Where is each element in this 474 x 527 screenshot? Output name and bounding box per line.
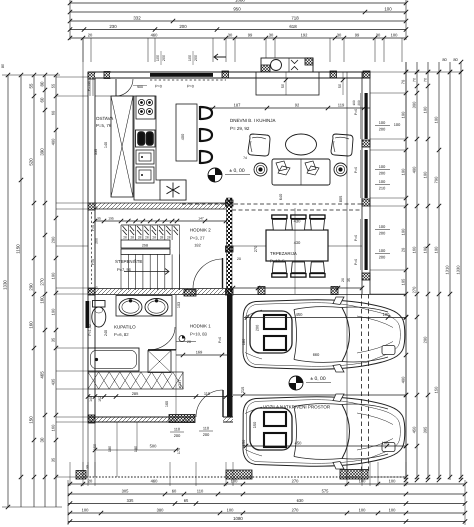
kitchen double sink black basins: [136, 130, 156, 147]
island stool 2: [200, 128, 212, 142]
svg-text:395: 395: [423, 426, 428, 433]
armchair left: [248, 134, 270, 156]
door stub hatch at bath wall: [184, 290, 196, 297]
witness lines bottom: [69, 462, 71, 486]
bottom door swing arc: [196, 390, 223, 417]
svg-text:20: 20: [341, 278, 345, 282]
stair direction arrow: [124, 269, 169, 275]
svg-text:270: 270: [292, 508, 300, 513]
armchair right: [331, 134, 353, 156]
left wall pier at bottom wall: [88, 415, 95, 423]
svg-text:110: 110: [197, 489, 204, 494]
coffee table oval: [286, 134, 317, 155]
svg-text:P=0: P=0: [91, 225, 95, 231]
left wall glass doors at stairs (P=0): [91, 212, 93, 284]
svg-text:P=5, 76: P=5, 76: [96, 123, 112, 128]
svg-text:STEPENIŠTE: STEPENIŠTE: [115, 259, 142, 264]
svg-text:450: 450: [295, 441, 303, 446]
partition pier marks: [226, 200, 234, 206]
svg-text:200: 200: [162, 55, 166, 61]
svg-text:335: 335: [94, 149, 98, 155]
svg-text:200: 200: [203, 432, 210, 437]
chimney vent arrows: [291, 60, 298, 70]
right window 3 black glazing: [365, 219, 368, 270]
svg-text:380: 380: [157, 508, 165, 513]
dim line right 2: [416, 62, 418, 480]
svg-text:150: 150: [434, 386, 439, 393]
svg-text:618: 618: [289, 24, 297, 29]
svg-text:950: 950: [233, 7, 241, 12]
svg-text:180: 180: [134, 446, 138, 452]
interior wall hodnik horizontal: [95, 203, 227, 209]
svg-text:100: 100: [379, 179, 386, 184]
svg-text:200: 200: [357, 100, 361, 106]
kitchen island: [176, 104, 197, 161]
svg-text:35: 35: [97, 217, 101, 221]
svg-text:460: 460: [151, 33, 159, 38]
svg-text:215: 215: [240, 387, 245, 394]
island stool 1: [200, 106, 212, 120]
stair dim line with 28 treads: [95, 220, 226, 222]
svg-text:100: 100: [394, 122, 401, 127]
svg-text:290: 290: [29, 283, 34, 291]
sofa pillows left: [276, 161, 290, 175]
svg-text:100: 100: [379, 248, 386, 253]
svg-text:460: 460: [151, 479, 159, 484]
outer wall right faces: [361, 72, 363, 294]
svg-text:169: 169: [196, 350, 203, 355]
svg-text:200: 200: [379, 255, 386, 260]
left wall pier at hodnik wall: [88, 203, 95, 210]
svg-text:± 0, 00: ± 0, 00: [229, 168, 244, 174]
dim line left 5: [55, 75, 57, 507]
car 2: [243, 394, 405, 469]
svg-text:20: 20: [88, 479, 93, 484]
dim block left bottom end bar: [2, 506, 62, 508]
stove with 4 burners: [136, 96, 155, 119]
svg-text:100: 100: [434, 246, 439, 253]
svg-text:P=7, 56: P=7, 56: [117, 267, 132, 272]
svg-text:P=0: P=0: [354, 259, 358, 265]
bottom pier middle: [226, 470, 252, 479]
svg-text:± 0, 00: ± 0, 00: [310, 376, 325, 382]
dim line bottom 3: [68, 503, 465, 505]
svg-text:400: 400: [401, 376, 406, 383]
svg-text:305: 305: [122, 489, 130, 494]
outer wall top face lines: [88, 71, 370, 73]
carport right edge: [405, 62, 407, 480]
svg-text:92: 92: [295, 103, 300, 108]
bath sink 1: [119, 299, 142, 316]
hodnik2 door leaf: [222, 258, 224, 288]
svg-text:100: 100: [384, 7, 392, 12]
hodnik1 level mark: [179, 336, 185, 342]
stair upper flight treads with hatch: [120, 225, 122, 240]
dim line top 3 (332/718): [70, 20, 406, 22]
svg-text:140: 140: [89, 396, 93, 402]
bottom door leaf: [222, 390, 224, 417]
svg-text:P=0: P=0: [354, 235, 358, 241]
interior wall east black (hodnik1/garage): [227, 295, 233, 417]
chimney corner hatch left: [261, 65, 270, 72]
svg-text:400: 400: [412, 166, 417, 173]
bath vanity counter: [116, 296, 172, 317]
svg-text:100: 100: [389, 479, 397, 484]
sofa pillows right: [305, 161, 319, 175]
svg-text:200: 200: [379, 231, 386, 236]
svg-text:30: 30: [337, 33, 342, 38]
svg-text:630: 630: [297, 498, 305, 503]
stair handrail box 2: [121, 249, 170, 254]
witness lines right wall to chains: [370, 71, 406, 73]
svg-text:DNEVNI B. I KUHINJA: DNEVNI B. I KUHINJA: [230, 118, 276, 123]
entrance arrow: [214, 54, 226, 60]
svg-text:30: 30: [86, 465, 90, 469]
dim block top left end bar: [69, 0, 71, 40]
svg-text:1080: 1080: [235, 0, 245, 3]
bathtub: [88, 348, 139, 371]
dim line right 1: [405, 62, 407, 480]
svg-text:175: 175: [177, 448, 181, 454]
bottom terrace dotted edge: [83, 476, 406, 478]
svg-text:332: 332: [133, 16, 141, 21]
toilet: [92, 307, 106, 327]
car 1: [243, 297, 405, 372]
svg-text:500: 500: [150, 444, 158, 449]
svg-text:100: 100: [379, 164, 386, 169]
svg-text:435: 435: [51, 378, 56, 385]
bottom door opening: [195, 416, 223, 423]
svg-text:80: 80: [1, 64, 5, 68]
svg-text:230: 230: [109, 24, 117, 29]
svg-text:270: 270: [292, 479, 300, 484]
right wall pier 2: [362, 140, 370, 147]
svg-text:465: 465: [40, 371, 45, 379]
right wall inner sill lines: [360, 93, 362, 139]
dim line bottom 1: [68, 483, 465, 485]
svg-text:P=6, 82: P=6, 82: [114, 332, 129, 337]
svg-text:ø217: ø217: [178, 380, 182, 389]
side table ring right: [334, 163, 347, 176]
svg-text:50: 50: [338, 84, 342, 88]
svg-text:103: 103: [177, 302, 181, 308]
left wall pier top: [88, 72, 95, 79]
svg-text:P=0: P=0: [354, 109, 358, 115]
dim block bottom right end bar: [464, 480, 466, 525]
svg-text:450: 450: [412, 426, 417, 433]
hodnik2 door swing arc: [193, 259, 223, 289]
svg-text:200: 200: [179, 24, 187, 29]
svg-text:119: 119: [338, 103, 345, 108]
house bottom wall: [88, 417, 233, 422]
svg-text:P=0: P=0: [354, 167, 358, 173]
terrace witness verticals: [116, 422, 118, 477]
svg-text:160: 160: [412, 246, 417, 253]
garage mid dim line: [233, 394, 406, 396]
svg-text:28: 28: [123, 236, 127, 240]
svg-text:100: 100: [379, 120, 386, 125]
left wall window upper (P=140): [89, 79, 91, 96]
bottom pier right: [340, 470, 368, 480]
svg-text:35: 35: [51, 337, 56, 342]
chimney circle flue: [271, 60, 282, 71]
dim line bottom 5 (1080): [68, 521, 465, 523]
svg-text:1330: 1330: [3, 280, 8, 290]
svg-text:150: 150: [252, 421, 257, 428]
garage top edge line: [233, 294, 406, 296]
elevation symbol living: [208, 168, 222, 182]
svg-text:100: 100: [352, 100, 356, 106]
svg-text:1310: 1310: [445, 265, 450, 275]
svg-text:KUPATILO: KUPATILO: [114, 325, 136, 330]
svg-text:P=0: P=0: [187, 85, 194, 89]
svg-text:30: 30: [40, 437, 45, 442]
chimney lower footprint: [256, 72, 319, 95]
island stool 3: [200, 150, 212, 164]
dining chair bottom 1: [272, 262, 287, 277]
svg-text:182: 182: [194, 243, 201, 248]
svg-text:520: 520: [29, 158, 34, 166]
garage top dim line: [233, 287, 362, 289]
dim line right 3: [427, 62, 429, 480]
svg-text:200: 200: [194, 55, 198, 61]
svg-text:70: 70: [424, 78, 428, 82]
svg-text:200: 200: [379, 171, 386, 176]
svg-text:100: 100: [227, 508, 235, 513]
svg-text:100: 100: [359, 508, 367, 513]
svg-text:805: 805: [338, 196, 343, 203]
svg-text:400: 400: [51, 138, 56, 145]
entry door opening: [110, 73, 137, 78]
svg-text:450: 450: [296, 312, 304, 317]
svg-text:640: 640: [278, 193, 283, 200]
svg-text:55: 55: [29, 83, 34, 88]
dining dim line across room: [233, 245, 362, 247]
svg-text:100: 100: [391, 33, 399, 38]
svg-text:1330: 1330: [456, 265, 461, 275]
svg-text:100: 100: [51, 272, 56, 279]
svg-text:80: 80: [40, 81, 45, 86]
dim line left 2 (1150): [20, 75, 22, 507]
terrace dim 500: [95, 449, 178, 451]
svg-text:1080: 1080: [233, 516, 243, 521]
svg-text:270: 270: [412, 286, 417, 293]
bottom door threshold hatch: [169, 415, 195, 423]
dim line right 4: [438, 62, 440, 480]
svg-text:210: 210: [379, 186, 386, 191]
chimney corner hatch right: [305, 58, 313, 65]
svg-text:99: 99: [355, 33, 360, 38]
svg-text:660: 660: [313, 352, 320, 357]
car 1 dim line 450/100: [244, 317, 406, 319]
overhead gallery dashed lines through living: [182, 203, 362, 205]
svg-text:P=10, 83: P=10, 83: [190, 332, 208, 337]
svg-text:99: 99: [248, 33, 253, 38]
garage right wall line upper part: [346, 72, 348, 294]
dining chair top 2: [291, 215, 306, 230]
side table ring left: [254, 163, 267, 176]
svg-text:270: 270: [253, 245, 258, 252]
roof overhang dashed pair over cars: [361, 294, 363, 472]
svg-text:100: 100: [156, 55, 160, 61]
svg-text:105: 105: [401, 278, 406, 285]
garage right wall line through cars: [346, 294, 348, 480]
car 2 dim line 450/100: [243, 445, 406, 447]
svg-text:575: 575: [322, 489, 330, 494]
svg-text:390: 390: [40, 148, 45, 156]
svg-text:100: 100: [389, 508, 397, 513]
interior wall bath/stairs horizontal: [88, 289, 232, 295]
dining chair bottom 3: [310, 262, 325, 277]
svg-text:180: 180: [241, 338, 246, 345]
dim line top 5 (small segments): [70, 37, 406, 39]
svg-text:50: 50: [281, 84, 285, 88]
interior partition stairs east (checkered): [227, 198, 233, 295]
svg-text:35: 35: [347, 278, 351, 282]
dim line left 1 (1330): [7, 75, 9, 507]
bath floor hatch band: [88, 372, 183, 389]
svg-text:200: 200: [423, 336, 428, 343]
svg-text:180: 180: [108, 446, 112, 452]
svg-text:100: 100: [188, 55, 192, 61]
washing machine X box: [148, 351, 171, 373]
svg-text:150: 150: [29, 416, 34, 424]
svg-text:160: 160: [29, 321, 34, 329]
svg-text:TRPEZARIJA: TRPEZARIJA: [270, 251, 297, 256]
top wall white base: [95, 73, 362, 78]
stair lower flight treads: [120, 254, 122, 290]
kitchen drawer unit 2: [136, 167, 154, 183]
dim line right 6 (1330): [460, 62, 462, 480]
svg-text:335: 335: [127, 498, 135, 503]
entry door swing arc: [116, 79, 133, 96]
svg-text:28: 28: [160, 236, 164, 240]
svg-text:100: 100: [423, 171, 428, 178]
svg-text:35: 35: [51, 457, 56, 462]
right window 1 black glazing: [365, 93, 368, 139]
svg-text:187: 187: [234, 103, 242, 108]
svg-text:192: 192: [301, 33, 309, 38]
witness lines from left wall to dim block: [56, 76, 88, 78]
kitchen drawer unit 1: [136, 150, 154, 164]
svg-text:160: 160: [51, 424, 56, 431]
right wall pier 4: [362, 273, 370, 280]
dim block top right end bar: [405, 0, 407, 40]
dim line 187/92/119 across living: [208, 107, 370, 109]
svg-text:270: 270: [40, 278, 45, 286]
entry door leaf: [115, 79, 117, 96]
svg-text:258: 258: [142, 244, 148, 248]
svg-text:240: 240: [104, 330, 108, 336]
stair handrail box 258: [121, 240, 170, 248]
top wall pier right: [330, 71, 337, 78]
svg-text:430: 430: [294, 219, 302, 224]
top wall pier left of entry door: [104, 72, 110, 79]
svg-text:28: 28: [152, 236, 156, 240]
elevation symbol garage: [289, 376, 303, 390]
dining chair bottom 2: [291, 262, 306, 277]
svg-text:110: 110: [203, 426, 210, 431]
bath door swing arc: [148, 327, 175, 350]
svg-text:200: 200: [255, 324, 260, 331]
svg-text:100: 100: [423, 106, 428, 113]
top-right corner pier: [363, 71, 370, 78]
svg-text:P= 29, 92: P= 29, 92: [230, 126, 250, 131]
svg-text:70: 70: [413, 78, 417, 82]
left wall pier at bath wall: [88, 288, 95, 295]
svg-text:28: 28: [145, 236, 149, 240]
dim line top 1 (1080): [70, 2, 406, 4]
svg-text:200: 200: [51, 236, 56, 243]
right window 2 black glazing: [365, 150, 368, 198]
svg-text:P=0: P=0: [218, 337, 222, 343]
bath bottom dim line: [88, 396, 233, 398]
dim line top 4 (230/200/618): [70, 29, 406, 31]
dining table: [266, 230, 328, 261]
svg-text:100: 100: [82, 508, 90, 513]
svg-text:VOZILA NATKRIVENI PROSTOR: VOZILA NATKRIVENI PROSTOR: [263, 405, 331, 410]
ostava tall cabinet with X: [111, 96, 133, 197]
svg-text:790: 790: [434, 176, 439, 183]
svg-text:28: 28: [131, 236, 135, 240]
svg-text:HODNIK 1: HODNIK 1: [190, 324, 211, 329]
sofa two-seat: [272, 159, 330, 185]
svg-text:200: 200: [379, 127, 386, 132]
svg-text:200: 200: [174, 433, 181, 438]
svg-text:100: 100: [382, 441, 390, 446]
dim block left top end bar: [2, 74, 60, 76]
svg-text:100: 100: [423, 246, 428, 253]
svg-text:100: 100: [401, 228, 406, 235]
svg-text:150: 150: [241, 439, 246, 446]
svg-text:74: 74: [243, 156, 247, 160]
svg-text:20: 20: [88, 33, 93, 38]
svg-text:100: 100: [379, 224, 386, 229]
chimney block outline: [261, 58, 313, 72]
svg-text:110: 110: [204, 391, 211, 396]
svg-text:100: 100: [383, 312, 391, 317]
svg-text:100: 100: [434, 116, 439, 123]
top window black band: [150, 73, 213, 77]
svg-text:P=3, 27: P=3, 27: [190, 236, 205, 241]
svg-text:55: 55: [51, 83, 56, 88]
svg-text:28: 28: [167, 236, 171, 240]
garage piers at dining edge: [258, 287, 265, 295]
left wall bath window black glazing: [86, 301, 90, 328]
dining chair top 1: [272, 215, 287, 230]
svg-text:30: 30: [376, 33, 381, 38]
svg-text:P=0: P=0: [91, 259, 95, 265]
svg-text:28: 28: [138, 236, 142, 240]
svg-text:HODNIK 2: HODNIK 2: [190, 228, 211, 233]
right chains 70 labels: [415, 84, 419, 88]
outer wall left: [87, 72, 89, 422]
witness line through dining: [294, 208, 296, 294]
svg-text:65: 65: [184, 498, 189, 503]
svg-text:285: 285: [132, 391, 139, 396]
top wall pier mid: [222, 71, 229, 78]
svg-text:100: 100: [51, 308, 56, 315]
dim line left 4: [44, 75, 46, 507]
svg-text:60: 60: [40, 97, 45, 102]
svg-text:160: 160: [40, 296, 45, 304]
svg-text:300: 300: [412, 101, 417, 108]
dim block bottom left end bar: [67, 480, 69, 525]
svg-text:30: 30: [228, 33, 233, 38]
dim line bottom 4: [68, 512, 465, 514]
svg-text:400: 400: [180, 133, 185, 140]
bath east wall line: [175, 295, 177, 351]
